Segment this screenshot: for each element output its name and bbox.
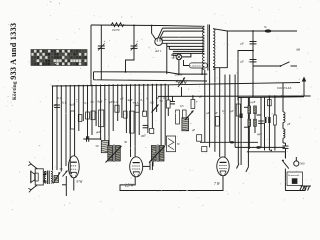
svg-text:Lampenfassg: Lampenfassg	[190, 65, 204, 68]
svg-text:910/574 AZ: 910/574 AZ	[277, 86, 292, 90]
junction lamp bus 2	[201, 73, 203, 75]
svg-text:μF: μF	[231, 109, 235, 113]
top bus wire	[91, 25, 204, 26]
svg-text:Si: Si	[264, 25, 267, 29]
IF transformer 1	[108, 145, 121, 163]
fuse on mains bus	[264, 25, 271, 33]
valve data table	[31, 50, 87, 66]
bus B lower	[158, 95, 311, 97]
lamp box wire left	[184, 60, 190, 66]
svg-text:AB: AB	[296, 48, 300, 52]
svg-text:μF: μF	[199, 95, 203, 99]
junction lamp bus 1	[178, 73, 180, 75]
wire vertical C2	[126, 25, 135, 72]
svg-text:9 W: 9 W	[77, 180, 84, 184]
lamp holder box	[189, 63, 207, 68]
potentiometer 20k	[175, 73, 187, 97]
loudspeaker	[28, 162, 43, 193]
svg-text:0,1: 0,1	[58, 96, 62, 100]
capacitor C1 (trimmer)	[98, 40, 106, 51]
left border wire	[90, 25, 92, 86]
heater comb wires	[205, 68, 235, 157]
svg-text:50: 50	[96, 144, 100, 148]
svg-text:50: 50	[91, 100, 95, 104]
resistor R1	[111, 23, 124, 32]
svg-text:8μF: 8μF	[98, 100, 103, 104]
bus Q lower	[94, 80, 208, 81]
mains switch	[253, 62, 297, 67]
secondary top wire	[213, 29, 227, 31]
svg-text:μF: μF	[110, 100, 114, 104]
IF transformer 2	[151, 145, 164, 163]
transformer primary tap ladder	[162, 28, 204, 53]
wire vertical C1	[100, 25, 102, 80]
tube V2	[125, 157, 143, 189]
box with cross W	[167, 136, 181, 152]
svg-text:4μF: 4μF	[70, 103, 75, 107]
transformer T1 primary winding	[203, 26, 205, 69]
transformer T1 core	[208, 25, 210, 71]
IFT2 tuning arrow	[149, 146, 165, 163]
bottom right mains area	[200, 141, 311, 190]
svg-text:μμF: μμF	[141, 134, 146, 138]
junction caps	[252, 50, 254, 52]
svg-text:+: +	[136, 40, 138, 44]
svg-text:+: +	[196, 100, 198, 104]
svg-text:μμF: μμF	[96, 130, 101, 134]
IFT1 tuning arrow	[106, 146, 122, 163]
svg-text:500: 500	[300, 162, 305, 166]
svg-text:μF: μF	[156, 96, 160, 100]
bottom interconnect wires	[62, 161, 223, 196]
svg-text:μF: μF	[121, 97, 125, 101]
lamp ladder drop	[172, 53, 174, 56]
output tube V1	[68, 156, 83, 184]
svg-text:μF: μF	[207, 111, 211, 115]
lamp wire right	[182, 53, 191, 57]
svg-text:μF: μF	[241, 42, 245, 46]
bus P upper	[94, 72, 208, 74]
svg-text:μF: μF	[192, 128, 196, 132]
svg-text:μF: μF	[287, 122, 291, 126]
junction right bus	[252, 30, 254, 32]
svg-text:W: W	[177, 142, 180, 146]
dial lamp	[176, 54, 182, 60]
right vertical wire	[252, 31, 254, 97]
extra value labels	[58, 95, 227, 145]
anode tap diagonal 1	[158, 28, 163, 38]
svg-text:0,5: 0,5	[180, 104, 184, 108]
rectifier tube AZ1	[155, 38, 163, 53]
capacitor C3	[241, 42, 257, 46]
lamp box wire down	[201, 68, 203, 74]
svg-text:μF: μF	[241, 60, 245, 64]
svg-text:μμF: μμF	[257, 132, 262, 136]
antenna arrow	[302, 77, 307, 97]
component comb wires	[52, 84, 166, 174]
lamp label	[171, 54, 177, 60]
output transformer	[43, 171, 52, 185]
tube V3	[214, 157, 229, 186]
capacitor C4	[241, 60, 257, 64]
svg-text:7 W: 7 W	[214, 182, 221, 186]
svg-text:50: 50	[60, 167, 64, 171]
anode tap diagonal 2	[160, 31, 164, 38]
svg-text:μF: μF	[215, 111, 219, 115]
wire L to caps	[238, 51, 253, 101]
junction node rectifier feed	[151, 25, 153, 27]
transformer T1 secondary winding	[213, 29, 215, 70]
wire rect filament down	[166, 46, 168, 74]
junction node top bus	[133, 25, 135, 27]
bus B dots	[192, 95, 282, 97]
svg-text:0,1: 0,1	[164, 96, 168, 100]
mid component row	[54, 98, 164, 142]
junction bus P C2	[125, 71, 127, 73]
resistor near speaker	[53, 167, 63, 184]
svg-text:0,1: 0,1	[222, 109, 226, 113]
wire lower right horizontal	[238, 96, 304, 99]
svg-text:20000: 20000	[175, 73, 183, 77]
choke coil box	[96, 141, 109, 153]
svg-text:5B: 5B	[172, 57, 175, 60]
svg-text:Netzanschl.: Netzanschl.	[288, 174, 300, 177]
title text Koerting 933 A und 1333	[9, 23, 18, 100]
svg-text:AZ 1: AZ 1	[155, 49, 162, 53]
wire to rectifier anode	[152, 26, 156, 40]
svg-text:+: +	[133, 101, 135, 105]
bus P stub	[93, 72, 95, 80]
secondary loop wire	[213, 31, 297, 68]
lamp wire down	[178, 60, 180, 74]
svg-text:2x370: 2x370	[112, 28, 120, 32]
bus A main	[53, 83, 301, 87]
components between buses	[167, 85, 198, 116]
svg-text:μμF: μμF	[251, 100, 256, 104]
svg-text:50: 50	[160, 99, 164, 103]
svg-text:+: +	[95, 111, 97, 115]
svg-text:+: +	[104, 40, 106, 44]
antenna and oscillator coils	[238, 83, 290, 167]
capacitor C2 (trimmer)	[131, 40, 139, 51]
mid right components	[176, 104, 241, 152]
